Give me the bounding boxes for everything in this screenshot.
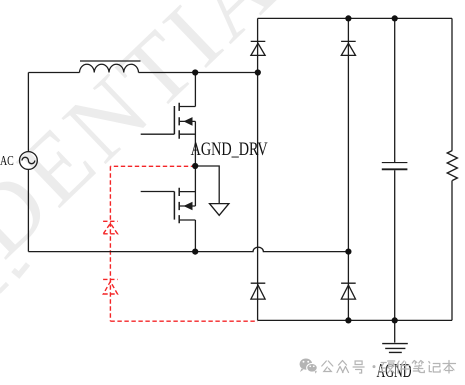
diode D2 xyxy=(341,41,356,55)
resistor R1 branch top xyxy=(451,18,453,150)
transistor Q1 upper MOSFET xyxy=(141,73,196,167)
wire AC bottom xyxy=(27,169,29,251)
wire top-left (AC top to inductor) xyxy=(28,73,79,152)
node: source-rail junction xyxy=(192,249,198,255)
diode D6 (body diode, red) xyxy=(103,279,118,294)
wire red top xyxy=(110,165,195,167)
diode D1 xyxy=(251,41,266,55)
node: drain junction on top wire xyxy=(192,69,198,75)
bottom rail with hop over leg1 xyxy=(28,247,348,251)
wire inductor to bridge leg1 xyxy=(139,72,258,74)
bridge leg 1 (left) xyxy=(257,18,259,320)
capacitor C1 branch bottom xyxy=(394,170,396,320)
label AC xyxy=(0,153,14,168)
ground (power gnd triangle) xyxy=(210,204,229,216)
wire ground tap xyxy=(394,320,396,342)
resistor R1 branch bottom xyxy=(451,181,453,321)
inductor L1 xyxy=(80,61,141,73)
node: cap branch top xyxy=(392,15,398,21)
diode D5 (body diode, red) xyxy=(103,221,118,234)
ground AGND (earth) xyxy=(382,344,408,353)
diode D4 xyxy=(341,283,356,299)
wire red bottom xyxy=(110,320,257,322)
wire red vertical xyxy=(109,166,111,321)
label AGND_DRV xyxy=(191,139,268,160)
bridge bottom wire xyxy=(258,319,452,321)
diode D3 xyxy=(251,283,266,299)
node: leg1 top-wire junction xyxy=(255,69,261,75)
node AGND_DRV xyxy=(192,163,198,169)
bridge leg 2 (right) xyxy=(347,18,349,320)
AC source V1 xyxy=(20,152,38,170)
resistor R1 xyxy=(447,151,457,181)
footer watermark (decorative) xyxy=(300,359,456,374)
bridge top wire xyxy=(258,17,452,19)
node: cap/gnd bottom xyxy=(392,317,398,323)
node: leg2 bottom xyxy=(345,317,351,323)
capacitor C1 xyxy=(382,163,408,170)
transistor Q2 lower MOSFET xyxy=(141,166,196,252)
wire AGND_DRV node to ground xyxy=(195,166,219,204)
red highlighted current path (dashed) xyxy=(103,166,258,321)
watermark (decorative) xyxy=(0,0,344,385)
label AGND xyxy=(377,361,412,382)
capacitor C1 branch top xyxy=(394,18,396,162)
svg-text:AGND_DRV: AGND_DRV xyxy=(191,139,268,160)
svg-text:AC: AC xyxy=(0,153,14,168)
node: rail to leg2 xyxy=(345,249,351,255)
svg-text:CONFIDENTIAL: CONFIDENTIAL xyxy=(0,0,344,385)
node: leg2 top xyxy=(345,15,351,21)
